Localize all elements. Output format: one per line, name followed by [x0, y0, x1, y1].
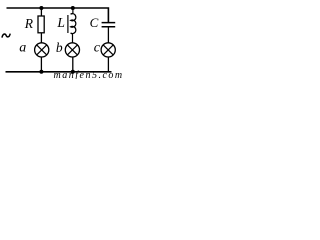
inductor L core line [67, 15, 69, 33]
wire R to lamp a [40, 33, 42, 43]
inductor L coil [71, 14, 76, 34]
node junction dot bottom of R branch [39, 70, 43, 74]
wire L branch upper lead [71, 8, 73, 14]
wire top rail (with right corner lead to capacitor) [7, 8, 109, 22]
wire lamp c to bottom rail [107, 57, 109, 72]
capacitor C [102, 23, 116, 27]
wire lamp a to bottom rail [40, 57, 42, 72]
wire R branch upper lead [40, 8, 42, 16]
wire L to lamp b [71, 33, 73, 43]
node junction dot top of L branch [71, 6, 75, 10]
svg-text:L: L [56, 15, 65, 30]
svg-text:C: C [90, 15, 99, 30]
wire lamp b to bottom rail [72, 57, 74, 72]
node junction dot bottom of L branch [71, 70, 75, 74]
lamp a [35, 43, 49, 57]
lamp b [65, 43, 79, 57]
svg-text:c: c [94, 41, 101, 56]
svg-text:R: R [24, 16, 34, 31]
svg-text:a: a [19, 41, 26, 56]
node junction dot top of R branch [39, 6, 43, 10]
lamp c [101, 43, 115, 57]
wire C to lamp c [107, 27, 109, 43]
resistor R [38, 16, 44, 33]
wire bottom rail [6, 71, 112, 73]
AC source symbol ~ [2, 34, 10, 38]
svg-text:b: b [56, 40, 63, 55]
